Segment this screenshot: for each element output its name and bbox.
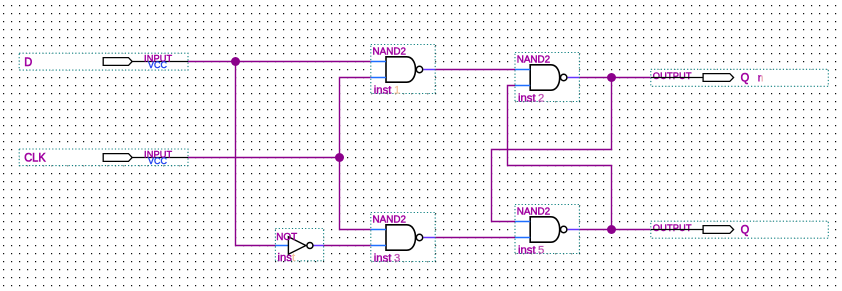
junction on Q wire	[607, 225, 616, 234]
output pin Q	[651, 221, 829, 238]
junction on Q_n wire	[607, 73, 616, 82]
svg-text:CLK: CLK	[24, 151, 46, 165]
svg-text:Q: Q	[741, 223, 750, 237]
svg-text:OUTPUT: OUTPUT	[653, 71, 692, 81]
nand2 inst2	[515, 53, 579, 105]
junction on CLK wire	[335, 153, 344, 162]
nand2 inst1	[371, 45, 435, 97]
svg-text:2: 2	[538, 92, 544, 104]
wire: NOT output to NAND3 bottom input	[324, 245, 371, 247]
not gate inst	[275, 229, 323, 264]
wire: NAND3 output to NAND5 bottom input	[435, 237, 515, 239]
wire: CLK pin to riser junction	[188, 157, 340, 159]
svg-text:D: D	[24, 55, 32, 69]
wire: D pin to NAND1 top input, node D	[188, 61, 371, 63]
nand2 inst3	[371, 213, 435, 265]
svg-text:OUTPUT: OUTPUT	[653, 223, 692, 233]
svg-text:ins: ins	[278, 252, 293, 264]
wire: cross-couple Q to NAND2 bottom input	[508, 86, 612, 230]
svg-text:5: 5	[538, 244, 544, 256]
svg-text:n: n	[758, 71, 764, 84]
output pin Q_n	[651, 69, 829, 86]
input pin CLK	[19, 149, 188, 166]
wire: CLK riser to NAND1 bottom input and NAND3 top input	[340, 78, 371, 230]
svg-text:NOT: NOT	[276, 232, 297, 243]
wire: NAND5 output to OUTPUT pin Q	[579, 229, 651, 231]
svg-text:NAND2: NAND2	[517, 55, 550, 66]
input pin D	[19, 53, 188, 70]
svg-text:NAND2: NAND2	[517, 207, 550, 218]
svg-text:3: 3	[394, 252, 400, 264]
svg-text:inst: inst	[518, 92, 536, 104]
svg-text:VCC: VCC	[148, 156, 168, 166]
nand2 inst5	[515, 205, 579, 257]
wire: cross-couple Q_n to NAND5 top input	[492, 78, 612, 222]
svg-text:inst: inst	[374, 84, 392, 96]
svg-text:VCC: VCC	[148, 60, 168, 70]
wire: NAND1 output to NAND2 top input	[435, 69, 515, 71]
svg-text:NAND2: NAND2	[373, 47, 406, 58]
svg-text:NAND2: NAND2	[373, 215, 406, 226]
wire: NAND2 output to OUTPUT pin Q_n	[579, 77, 651, 79]
svg-text:inst: inst	[518, 244, 536, 256]
svg-text:inst: inst	[374, 252, 392, 264]
svg-text:1: 1	[394, 84, 400, 96]
wire: D junction down to NOT input	[236, 62, 276, 246]
junction on D wire	[231, 57, 240, 66]
svg-text:Q: Q	[741, 71, 750, 85]
